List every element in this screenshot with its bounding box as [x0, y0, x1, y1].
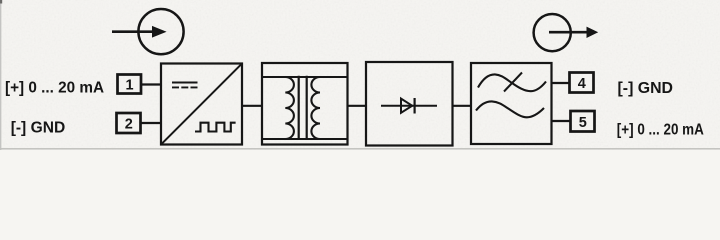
terminal 2 box	[117, 113, 141, 133]
square wave symbol	[195, 123, 236, 132]
filter slash	[504, 73, 522, 92]
wire: filter to terminal 5	[551, 120, 572, 122]
transformer bottom lead	[263, 138, 347, 140]
wire: terminal 1 to converter block	[141, 83, 162, 85]
diode triangle	[401, 99, 412, 113]
svg-text:[-] GND: [-] GND	[618, 80, 674, 97]
scan artifact: left edge line	[0, 0, 2, 150]
diode line	[381, 105, 437, 107]
terminal 1 box	[118, 75, 142, 94]
transformer core line right	[306, 76, 308, 140]
input signal symbol: circle	[138, 9, 183, 54]
svg-text:[-] GND: [-] GND	[11, 120, 65, 137]
svg-text:[+] 0 ... 20 mA: [+] 0 ... 20 mA	[617, 122, 704, 139]
wire: transformer to rectifier	[347, 105, 368, 107]
DC symbol solid line	[172, 81, 198, 83]
transformer core line left	[298, 76, 300, 140]
filter bottom sine	[476, 101, 544, 117]
wire: terminal 2 to converter block	[141, 122, 163, 124]
converter diagonal	[162, 64, 241, 143]
scan artifact: top-left dot	[0, 0, 2, 4]
filter top sine	[478, 74, 546, 91]
output signal symbol: circle	[534, 14, 571, 51]
svg-text:2: 2	[125, 117, 133, 133]
wire: rectifier to filter	[452, 105, 473, 107]
transformer block T1	[262, 63, 348, 145]
wire: filter to terminal 4	[551, 82, 571, 84]
filter block F1	[471, 63, 552, 144]
svg-text:5: 5	[579, 115, 587, 131]
svg-text:[+] 0 ... 20 mA: [+] 0 ... 20 mA	[5, 80, 104, 97]
transformer secondary winding	[311, 77, 320, 139]
terminal 4 box	[570, 73, 594, 93]
svg-text:1: 1	[126, 78, 134, 94]
scan artifact: bottom edge line	[0, 148, 720, 150]
input signal symbol: arrow	[112, 26, 167, 38]
svg-text:4: 4	[578, 76, 586, 92]
terminal 5 box	[571, 111, 595, 132]
DC/AC converter block U1	[161, 64, 242, 145]
transformer top lead	[263, 76, 347, 78]
rectifier block D1	[366, 62, 453, 146]
wire: converter to transformer	[242, 105, 263, 107]
DC symbol dashed line	[172, 86, 198, 88]
paper background	[0, 0, 720, 150]
transformer primary winding	[285, 77, 294, 139]
output signal symbol: arrow	[549, 27, 598, 38]
diode cathode bar	[414, 98, 416, 114]
